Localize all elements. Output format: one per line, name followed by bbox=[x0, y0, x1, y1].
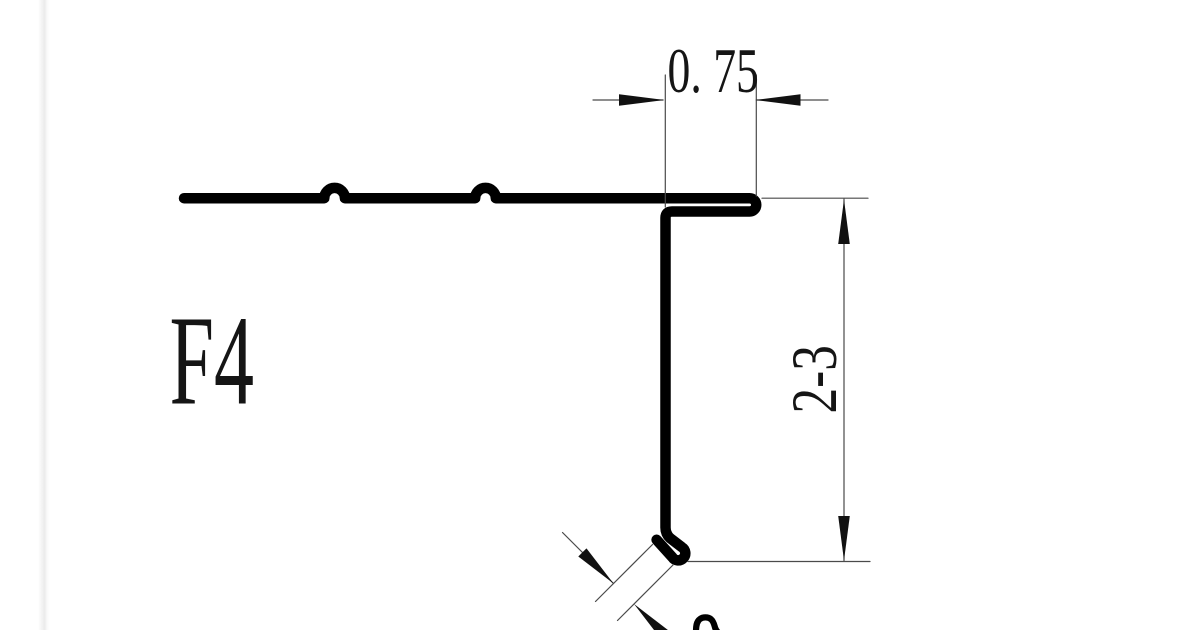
arrowhead down bbox=[838, 516, 850, 561]
extension line v2 (right of 0.75) bbox=[755, 75, 757, 196]
page edge divider (left faint line) bbox=[38, 0, 50, 630]
dimension text 2-3 (rotated) bbox=[778, 345, 850, 413]
thickness arrowhead 1 (points down-right) bbox=[578, 548, 613, 583]
thickness arrowhead 2 (points up-left, partly off-canvas) bbox=[634, 604, 669, 630]
svg-text:F4: F4 bbox=[170, 291, 254, 433]
arrowhead up bbox=[838, 200, 850, 245]
arrowhead right (points left) bbox=[755, 94, 801, 106]
vertical dimension line 2-3 bbox=[843, 199, 845, 561]
profile F4 outline (thick polyline: top flange with 2 ribs, right hem fold, vertical leg, 45-degree bottom hook) bbox=[184, 188, 756, 560]
extension line top right (for 2-3) bbox=[762, 197, 868, 199]
dim line 0.75 left tail bbox=[593, 99, 663, 101]
label F4 bbox=[170, 291, 254, 433]
bottom swirl (cut-off leader curve) bbox=[696, 617, 719, 630]
dim line 0.75 right tail bbox=[757, 99, 829, 101]
thickness extension line B (45 deg, lower) bbox=[618, 565, 674, 621]
svg-text:0. 75: 0. 75 bbox=[668, 36, 759, 106]
dimension text 0.75 bbox=[668, 36, 759, 106]
extension line v1 (left of 0.75) bbox=[664, 75, 666, 207]
svg-text:2-3: 2-3 bbox=[778, 345, 850, 413]
thickness extension line A (45 deg, upper) bbox=[596, 545, 653, 602]
extension line bottom right (for 2-3) bbox=[688, 561, 870, 563]
thickness leader 1 (from upper-left) bbox=[563, 533, 614, 584]
arrowhead left (points right) bbox=[619, 94, 665, 106]
